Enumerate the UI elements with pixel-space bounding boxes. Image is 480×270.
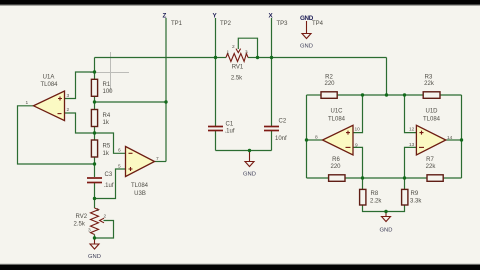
potentiometer RV1: [226, 44, 248, 82]
node C1/C2 gnd: [248, 149, 251, 152]
node bottom rail R9: [403, 176, 406, 179]
svg-text:GND: GND: [380, 228, 393, 234]
svg-text:7: 7: [156, 156, 159, 162]
svg-text:TP3: TP3: [277, 21, 289, 27]
svg-text:12: 12: [409, 127, 415, 133]
svg-text:R7: R7: [426, 157, 434, 163]
wire: bottom-right rail right: [443, 177, 462, 179]
svg-text:2: 2: [104, 214, 107, 220]
wire: R8 top stub: [362, 178, 364, 189]
svg-text:TP4: TP4: [312, 21, 324, 27]
svg-text:R6: R6: [332, 157, 340, 163]
wire: bottom-right rail left: [307, 177, 329, 179]
svg-text:R9: R9: [411, 191, 419, 197]
svg-text:3: 3: [245, 50, 248, 56]
svg-text:3: 3: [88, 228, 91, 234]
wire: U1D pin14 stub: [446, 139, 462, 141]
op-amp U1D: [409, 109, 453, 156]
resistor R5: [91, 140, 110, 157]
wire: R5 bottom to node: [94, 157, 96, 164]
wire: main riser down to right block: [386, 58, 388, 96]
node R5/out: [93, 162, 96, 165]
wire: Y rail left segment: [95, 57, 216, 59]
wire: C3 bottom to node: [94, 183, 96, 199]
op-amp U3B: [118, 147, 159, 198]
svg-text:U3B: U3B: [134, 191, 146, 197]
resistor R9: [402, 189, 423, 205]
resistor R6: [329, 157, 345, 181]
cursor crosshair: [90, 52, 129, 92]
wire: Y column top: [215, 18, 217, 58]
wire: U1A pin2 link: [65, 113, 95, 133]
wire: R1 top stub: [94, 72, 96, 80]
svg-text:TL084: TL084: [423, 117, 441, 123]
wire: X column down to C2: [271, 58, 273, 127]
ground TP4: [300, 21, 313, 50]
svg-text:TL084: TL084: [40, 82, 58, 88]
svg-text:3: 3: [67, 93, 70, 99]
svg-text:2.5k: 2.5k: [74, 222, 86, 228]
wire: Z column: [165, 18, 167, 162]
svg-text:GND: GND: [243, 172, 256, 178]
svg-text:22k: 22k: [424, 81, 435, 87]
node Y rail: [214, 56, 217, 59]
svg-text:8: 8: [315, 135, 318, 141]
wire: R4 bottom / R5 top: [94, 127, 96, 141]
svg-text:Z: Z: [163, 13, 167, 20]
svg-text:C1: C1: [226, 122, 234, 128]
wire: C2 bottom drop: [271, 131, 273, 151]
capacitor C3: [87, 172, 114, 189]
wire: U1C pin8 stub: [307, 139, 323, 141]
svg-text:RV1: RV1: [232, 65, 244, 71]
node U1C pin8: [305, 138, 308, 141]
ground C1/C2: [243, 151, 256, 178]
potentiometer RV2: [74, 207, 107, 235]
resistor R4: [91, 110, 110, 127]
svg-text:RV2: RV2: [76, 214, 88, 220]
svg-text:5: 5: [118, 164, 121, 170]
op-amp U1C: [315, 109, 360, 156]
node Y/R1: [93, 70, 96, 73]
node R4/R5/pin2: [93, 131, 96, 134]
node C3/pin5/RV2: [93, 197, 96, 200]
wire: C1-C2 ground link: [216, 150, 272, 152]
bottom letterbox bar: [0, 264, 480, 265]
node Z/R1/R4: [93, 100, 96, 103]
node rail pin12: [403, 93, 406, 96]
svg-text:R3: R3: [425, 74, 433, 80]
svg-text:U1C: U1C: [330, 109, 343, 115]
wire: U1C pin9 link: [353, 147, 363, 178]
node gnd R8/R9: [384, 210, 387, 213]
node RV2 bottom: [93, 236, 96, 239]
wire: Y column down to C1: [215, 58, 217, 127]
svg-text:1: 1: [97, 207, 100, 213]
wire: Y rail riser to R1 top: [94, 58, 96, 73]
svg-text:C2: C2: [279, 119, 287, 125]
wire: U1C left vertical: [306, 95, 308, 178]
svg-text:R8: R8: [371, 191, 379, 197]
wire: R1 bottom to node: [94, 97, 96, 110]
svg-text:TP2: TP2: [220, 21, 232, 27]
svg-text:220: 220: [330, 164, 341, 170]
svg-text:2.5k: 2.5k: [231, 76, 243, 82]
wire: node Z horizontal: [95, 101, 167, 103]
svg-text:1k: 1k: [103, 120, 110, 126]
svg-text:22k: 22k: [426, 164, 437, 170]
ground RV2: [88, 238, 101, 260]
svg-text:9: 9: [355, 143, 358, 149]
svg-text:U1D: U1D: [425, 109, 438, 115]
svg-text:14: 14: [447, 135, 453, 141]
wire: U3B output to Z: [155, 161, 167, 163]
svg-text:R1: R1: [103, 82, 111, 88]
svg-text:1k: 1k: [103, 151, 110, 157]
wire: U3B pin5 link: [95, 169, 126, 199]
resistor R3: [423, 74, 440, 98]
wire: U1C pin10 link: [353, 95, 363, 133]
svg-text:R5: R5: [103, 144, 111, 150]
svg-text:TL084: TL084: [131, 183, 149, 189]
svg-text:U1A: U1A: [43, 75, 55, 81]
wire: RV2 wiper loop: [95, 221, 114, 239]
wire: X rail segment RV1 right to main riser: [258, 57, 387, 59]
resistor R7: [426, 157, 444, 181]
svg-text:100: 100: [103, 89, 114, 95]
wire: R9 bottom to gnd node: [386, 205, 405, 212]
top letterbox bar: [0, 0, 480, 5]
ground R8/R9: [380, 212, 393, 234]
svg-text:TL084: TL084: [328, 117, 346, 123]
svg-text:.1uf: .1uf: [225, 129, 235, 135]
svg-text:6: 6: [118, 148, 121, 154]
capacitor C2: [264, 119, 287, 143]
svg-text:2.2k: 2.2k: [370, 199, 382, 205]
wire: X column top: [271, 18, 273, 58]
wire: U1D pin12 link: [405, 95, 417, 133]
wire: top-right rail mid: [337, 94, 423, 96]
node rail pin10: [361, 93, 364, 96]
svg-text:220: 220: [324, 81, 335, 87]
svg-text:GND: GND: [300, 44, 313, 50]
wire: U1D pin13 link: [405, 147, 417, 178]
resistor R8: [360, 189, 383, 205]
wire: node to U3B pin6: [95, 133, 126, 153]
wire: R8 bottom to gnd node: [363, 205, 387, 212]
wire: RV1 lead left: [216, 57, 227, 59]
svg-text:10nf: 10nf: [275, 136, 287, 142]
svg-text:1: 1: [26, 100, 29, 106]
wire: bottom-right rail mid: [345, 177, 427, 179]
op-amp U1A: [26, 75, 70, 121]
wire: C1 bottom drop: [215, 131, 217, 151]
wire: top-right rail corner to R2: [307, 94, 322, 96]
wire: top-right rail right: [440, 94, 462, 96]
resistor R2: [321, 74, 337, 98]
svg-text:TP1: TP1: [171, 21, 183, 27]
svg-text:R4: R4: [103, 113, 111, 119]
node RV1 wiper: [256, 56, 259, 59]
svg-text:2: 2: [232, 44, 235, 50]
wire: RV2 top stub: [94, 199, 96, 209]
svg-text:1: 1: [227, 50, 230, 56]
node U1D pin14: [460, 138, 463, 141]
svg-text:10: 10: [355, 127, 361, 133]
node Z mid: [164, 100, 167, 103]
wire: node down to C3: [94, 164, 96, 177]
svg-text:2: 2: [67, 107, 70, 113]
wire: U1A pin3 link: [65, 72, 95, 99]
svg-text:C3: C3: [105, 172, 113, 178]
capacitor C1: [208, 122, 235, 135]
wire: U1A output feedback: [18, 106, 95, 164]
svg-text:3.3k: 3.3k: [410, 199, 422, 205]
node X rail: [270, 56, 273, 59]
node bottom rail R8: [361, 176, 364, 179]
svg-text:13: 13: [409, 142, 415, 148]
node rail riser: [385, 93, 388, 96]
wire: R9 top stub: [404, 178, 406, 189]
wire: RV2 bottom stub: [94, 235, 96, 239]
svg-text:GND: GND: [88, 254, 101, 260]
wire: RV1 wiper loop: [238, 38, 257, 57]
resistor R1: [91, 79, 113, 96]
svg-text:.1uf: .1uf: [104, 183, 114, 189]
wire: RV1 lead right: [248, 57, 258, 59]
wire: U1D right vertical: [461, 95, 463, 178]
svg-text:R2: R2: [325, 74, 333, 80]
